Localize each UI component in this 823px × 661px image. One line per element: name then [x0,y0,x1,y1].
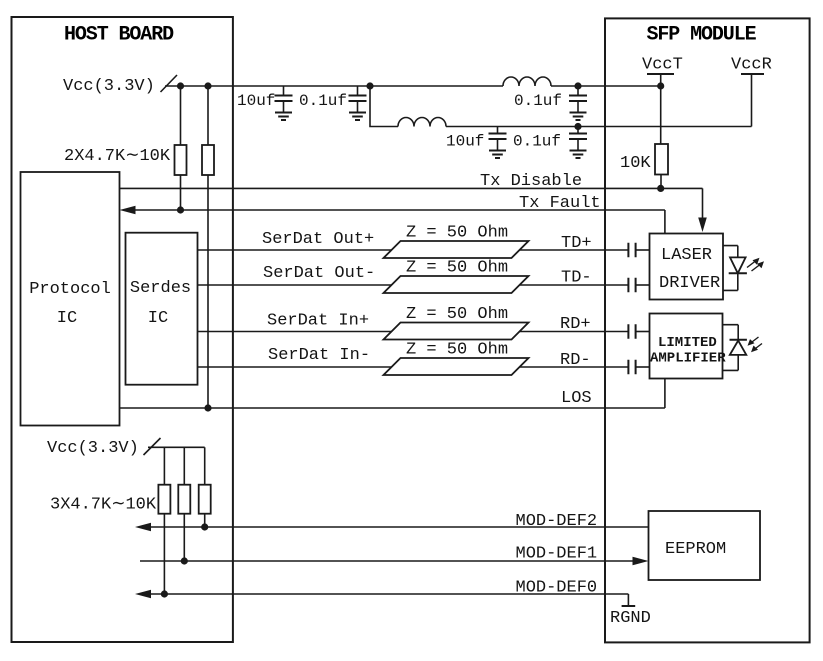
svg-text:IC: IC [57,309,77,328]
arrow MOD-DEF2 to host [135,523,151,532]
svg-text:Vcc(3.3V): Vcc(3.3V) [63,77,155,96]
node junction R2 Vcc [204,82,211,89]
wire SerDat Out+ line [198,249,629,251]
svg-text:Tx Disable: Tx Disable [480,172,582,191]
wire MOD-DEF2 [149,526,649,528]
svg-text:10uf: 10uf [446,133,484,151]
wire Vcc rail top [165,85,370,87]
IC U5 EEPROM [649,511,761,580]
svg-text:Z = 50 Ohm: Z = 50 Ohm [406,259,508,278]
wire Tx Fault [133,210,665,233]
arrows light out [747,260,762,272]
node junction R1 Vcc [177,82,184,89]
capacitor C5 0.1uf [577,127,579,134]
svg-text:TD-: TD- [561,269,592,288]
wire Vcc rail bottom [148,446,205,448]
resistor R2 pullup [207,86,209,145]
svg-text:HOST BOARD: HOST BOARD [64,24,174,47]
node junction R1 Tx Fault [177,206,184,213]
transmission line Z=50 Ohm (SerDat Out+) [384,241,529,258]
svg-text:AMPLIFIER: AMPLIFIER [650,351,726,367]
wire SerDat In+ line [198,331,629,333]
svg-text:LOS: LOS [561,389,592,408]
arrow Tx Disable into laser driver [698,218,707,233]
svg-text:10uf: 10uf [237,92,275,110]
IC U4 LIMITED AMPLIFIER [650,314,723,379]
ground RGND bar [622,605,636,607]
svg-text:SerDat In-: SerDat In- [268,346,370,365]
LED D1 laser diode [723,246,738,258]
IC U1 Protocol IC [21,172,120,426]
wire VccR drop [751,74,753,127]
svg-text:EEPROM: EEPROM [665,540,726,559]
capacitor coupling RD+ [628,324,635,339]
svg-text:DRIVER: DRIVER [659,274,720,293]
svg-text:RD-: RD- [560,351,591,370]
svg-text:0.1uf: 0.1uf [514,92,562,110]
resistor R1 pullup [180,86,182,145]
svg-text:MOD-DEF2: MOD-DEF2 [516,512,598,531]
capacitor C4 10uf [497,127,499,134]
wire LOS [120,379,665,409]
svg-text:3X4.7K∼10K: 3X4.7K∼10K [50,496,157,515]
svg-text:LIMITED: LIMITED [658,335,717,351]
svg-text:RD+: RD+ [560,315,591,334]
svg-text:Z = 50 Ohm: Z = 50 Ohm [406,224,508,243]
IC U2 Serdes IC [126,233,198,385]
capacitor coupling TD- [628,278,635,293]
wire RD- to module IC [636,366,650,368]
svg-text:SerDat In+: SerDat In+ [267,312,369,331]
svg-text:Serdes: Serdes [130,279,191,298]
svg-text:VccR: VccR [731,56,772,75]
svg-text:Tx Fault: Tx Fault [519,194,601,213]
wire RD+ to module IC [636,331,650,333]
resistor R4 pullup [163,447,165,484]
resistor R3 10K [655,144,668,175]
transmission line Z=50 Ohm (SerDat In+) [384,323,529,340]
svg-text:0.1uf: 0.1uf [299,92,347,110]
svg-text:LASER: LASER [661,246,712,265]
node junction R4 MOD-DEF0 [161,590,168,597]
wire Vcc branch lower drop [370,86,398,127]
node junction VccT filter [574,82,581,89]
node junction Vcc split [366,82,373,89]
capacitor C2 0.1uf [357,86,359,96]
svg-text:SFP MODULE: SFP MODULE [646,24,756,47]
svg-text:SerDat Out+: SerDat Out+ [262,230,374,249]
arrow MOD-DEF1 into EEPROM [633,557,649,566]
svg-text:Z = 50 Ohm: Z = 50 Ohm [406,341,508,360]
host board outline [12,17,233,642]
svg-text:2X4.7K∼10K: 2X4.7K∼10K [64,147,171,166]
wire Vcc branch to top filter [370,85,661,87]
capacitor coupling RD- [628,360,635,375]
node junction R5 MOD-DEF1 [181,557,188,564]
capacitor C3 0.1uf [577,86,579,96]
node junction VccR filter [574,123,581,130]
node junction VccT [657,82,664,89]
IC U3 LASER DRIVER [650,234,724,300]
photodiode D2 [723,325,738,340]
wire MOD-DEF1 [140,560,634,562]
svg-text:IC: IC [148,309,168,328]
capacitor C1 10uf [283,86,285,96]
inductor L2 [398,118,446,127]
wire lower filter rail to VccR [446,126,752,128]
svg-text:RGND: RGND [610,609,651,628]
wire SerDat In- line [198,366,629,368]
svg-text:MOD-DEF1: MOD-DEF1 [516,545,598,564]
inductor L1 [503,77,551,86]
svg-text:0.1uf: 0.1uf [513,133,561,151]
wire TD+ to module IC [636,249,650,251]
wire Tx Disable [120,188,703,218]
svg-text:10K: 10K [620,154,651,173]
svg-text:MOD-DEF0: MOD-DEF0 [516,579,598,598]
resistor R6 pullup [204,447,206,484]
power tap slash top [161,75,178,92]
SFP module outline [605,18,810,642]
wire MOD-DEF0 [149,594,628,606]
wire VccT to 10K [660,86,662,144]
svg-text:Z = 50 Ohm: Z = 50 Ohm [406,305,508,324]
svg-text:Protocol: Protocol [29,280,111,299]
arrow MOD-DEF0 to host [135,590,151,599]
transmission line Z=50 Ohm (SerDat In-) [384,358,529,375]
node junction R6 MOD-DEF2 [201,523,208,530]
svg-text:Vcc(3.3V): Vcc(3.3V) [47,439,139,458]
svg-text:TD+: TD+ [561,234,592,253]
node junction Tx Disable pullup [657,185,664,192]
wire TD- to module IC [636,284,650,286]
arrows light in [750,337,762,350]
svg-text:VccT: VccT [642,56,683,75]
resistor R5 pullup [183,447,185,484]
wire 10K to Tx Disable [660,175,662,189]
power tap slash bottom [144,438,161,455]
wire SerDat Out- line [198,284,629,286]
node junction R2 LOS [204,404,211,411]
arrow Tx Fault into Protocol IC [120,206,136,215]
svg-text:SerDat Out-: SerDat Out- [263,264,375,283]
capacitor coupling TD+ [628,243,635,258]
transmission line Z=50 Ohm (SerDat Out-) [384,276,529,293]
